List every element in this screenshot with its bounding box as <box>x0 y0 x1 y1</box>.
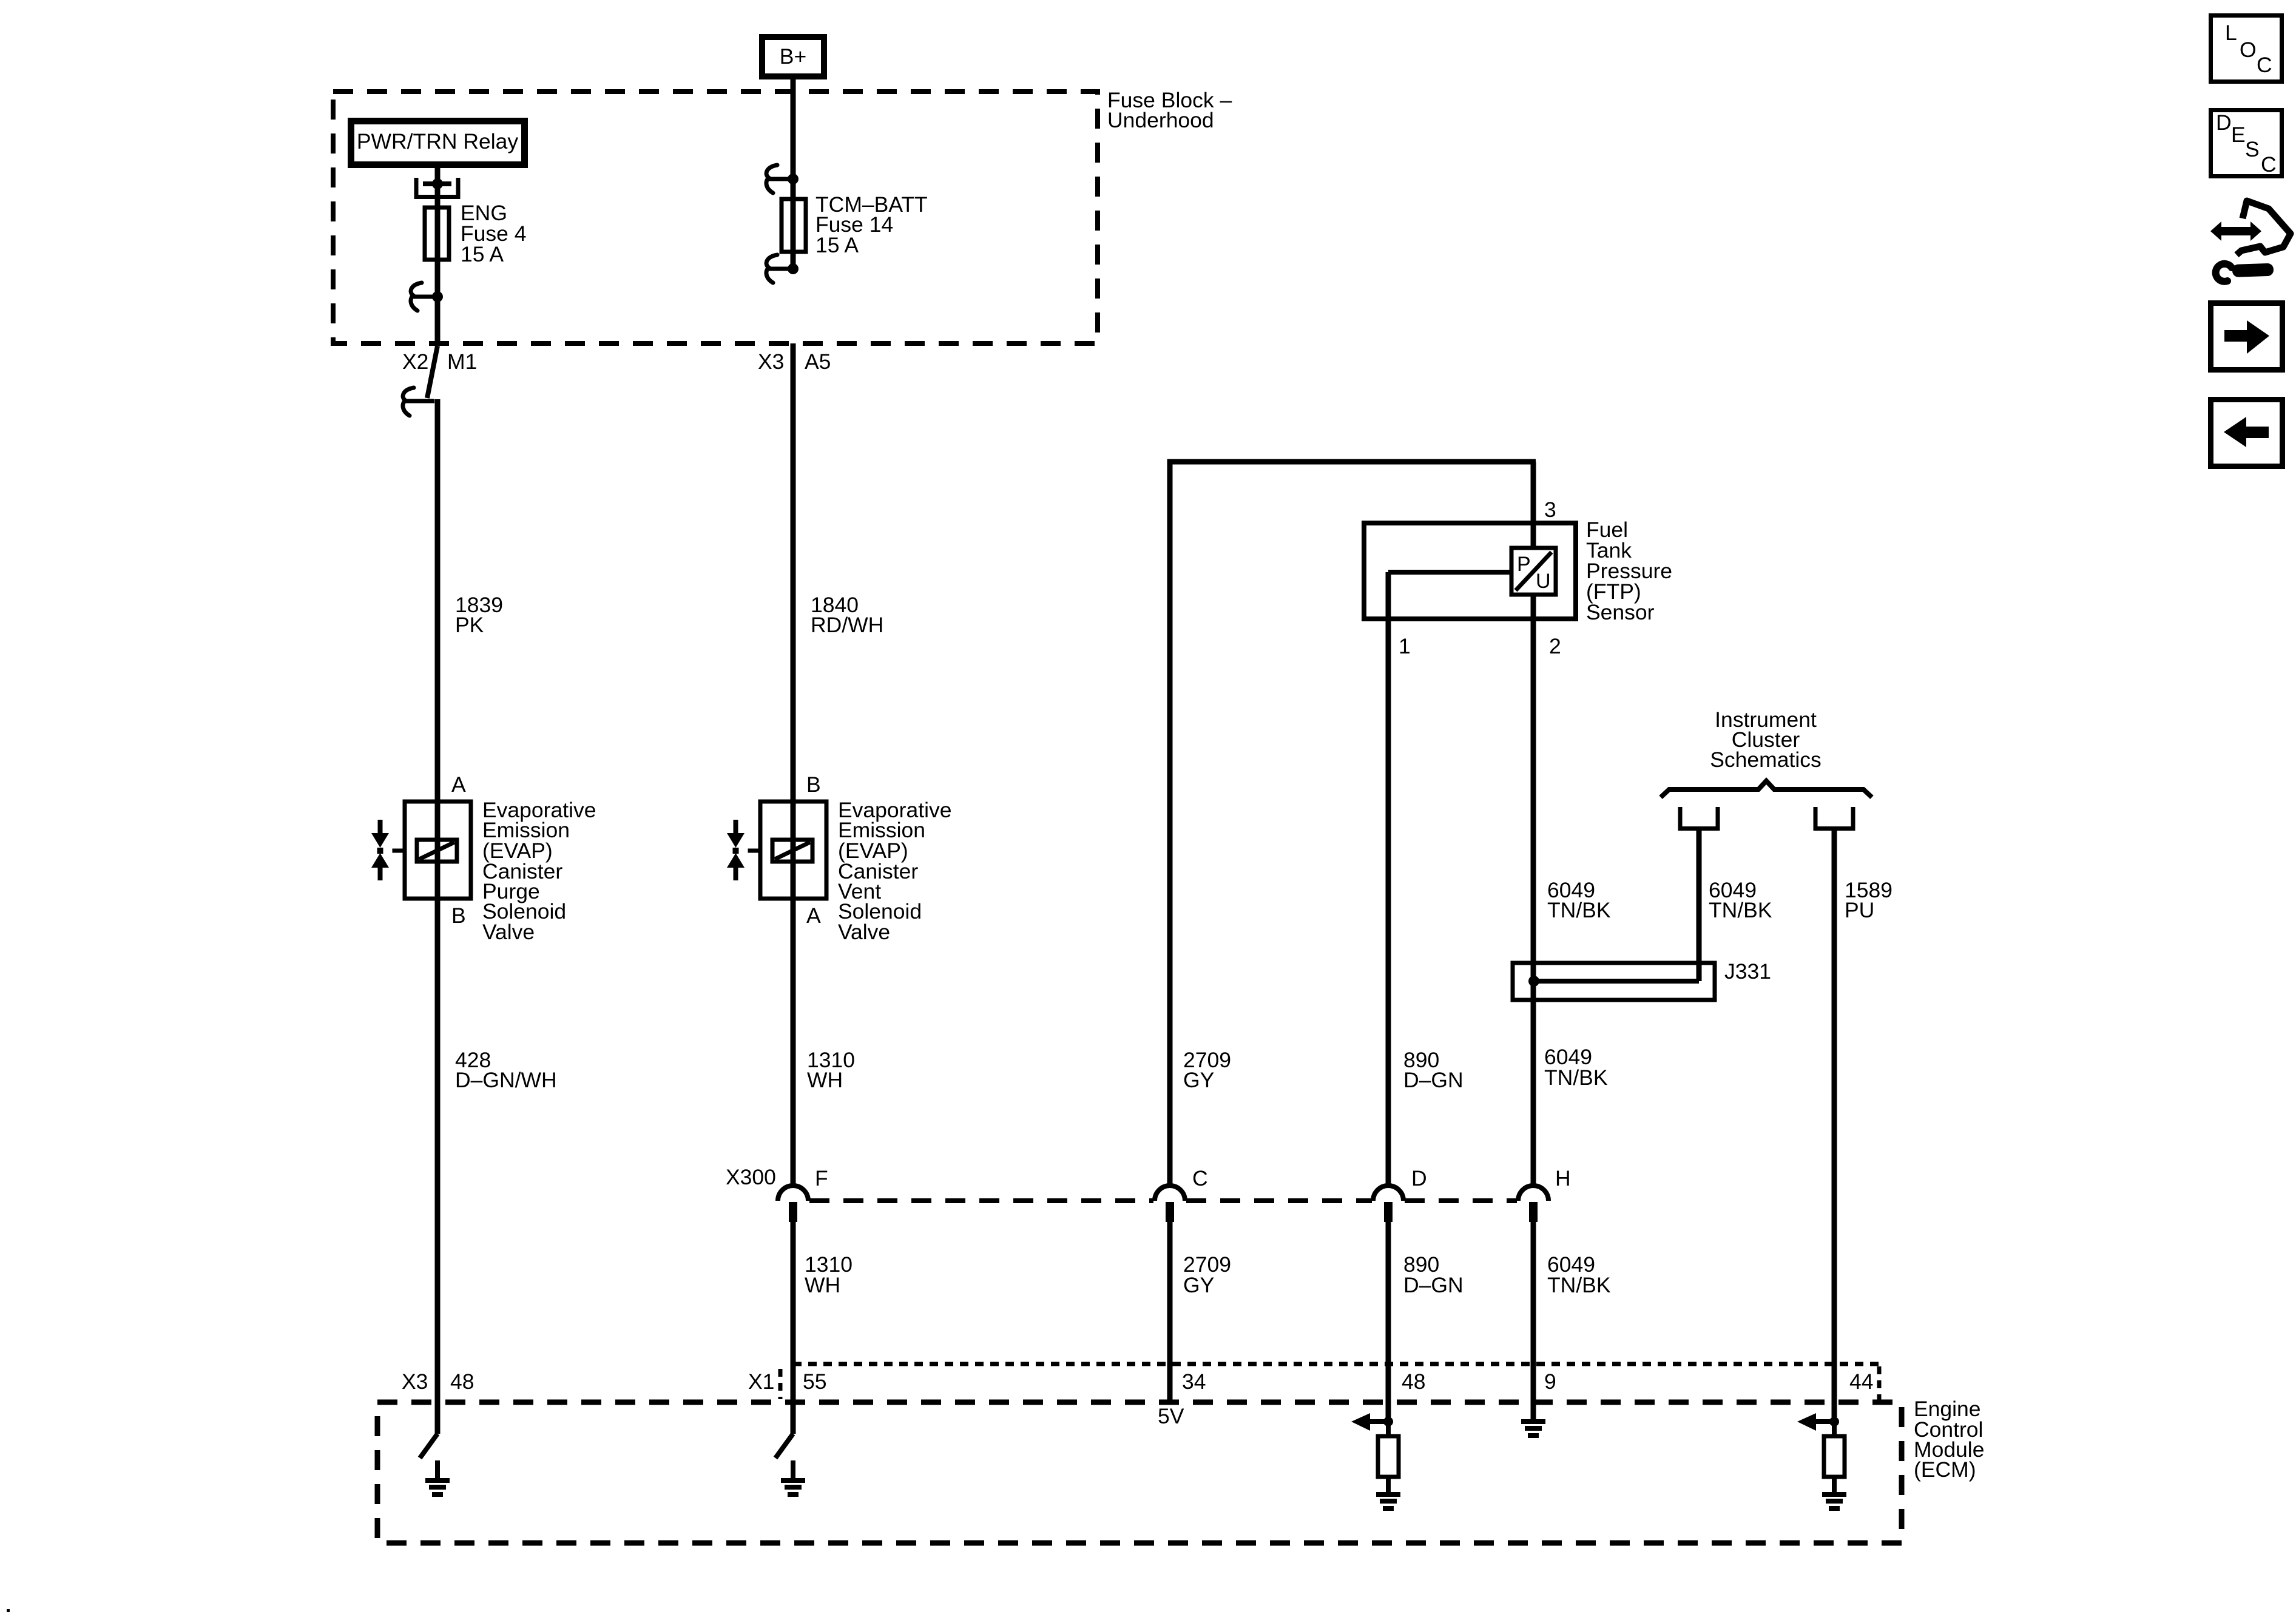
svg-text:55: 55 <box>803 1369 827 1394</box>
ECM pull-up arrow pin 48 <box>1351 1413 1393 1431</box>
splice J331 box <box>1513 963 1715 1000</box>
svg-text:5V: 5V <box>1158 1404 1184 1428</box>
ECM switch blade pin 48 X3 <box>420 1434 437 1458</box>
svg-text:O: O <box>2240 38 2257 62</box>
connector X300 pin C <box>1155 1166 1208 1222</box>
svg-text:1: 1 <box>1399 634 1411 658</box>
svg-text:B: B <box>806 772 821 797</box>
svg-text:48: 48 <box>1402 1369 1426 1394</box>
wire 428 D-GN/WH segment <box>435 899 441 1434</box>
sensor FTP box <box>1364 523 1576 619</box>
label X300 <box>726 1165 776 1189</box>
resistor ECM pin 44 <box>1824 1422 1845 1477</box>
svg-text:H: H <box>1555 1166 1571 1190</box>
svg-text:X3: X3 <box>402 1369 428 1394</box>
terminal A purge solenoid <box>451 772 466 797</box>
connector hook below fuse 14 <box>766 255 793 283</box>
wire 890 D-GN lower segment <box>1386 1222 1391 1422</box>
label 5V <box>1158 1404 1184 1428</box>
label J331 <box>1724 959 1771 984</box>
ground ECM pin 48 resistor <box>1376 1477 1400 1511</box>
terminal B vent solenoid <box>806 772 821 797</box>
svg-text:PWR/TRN Relay: PWR/TRN Relay <box>357 129 519 154</box>
vent solenoid coil <box>772 840 812 862</box>
wire - B+ down <box>791 79 796 179</box>
purge solenoid valve symbol <box>371 820 403 880</box>
svg-text:3: 3 <box>1544 498 1556 522</box>
label 1840 RD/WH <box>811 593 883 637</box>
label ENG Fuse 4 15 A <box>461 201 527 266</box>
pin label 34 <box>1182 1369 1206 1394</box>
ground ECM X3-48 <box>425 1460 450 1497</box>
page artifact dot <box>7 1609 10 1612</box>
label EVAP canister vent solenoid valve <box>838 798 951 944</box>
connector X300 dashed line <box>809 1198 1517 1203</box>
fuse ENG Fuse 4 15 A <box>425 208 449 260</box>
label 6049 TN/BK cluster <box>1709 878 1772 922</box>
svg-text:B+: B+ <box>780 44 806 69</box>
junction dot J331 <box>1528 976 1539 987</box>
connector X2 M1 labels <box>402 349 477 374</box>
wire 1839 PK segment <box>435 399 441 802</box>
svg-text:2: 2 <box>1549 634 1561 658</box>
icon back arrow box <box>2211 400 2283 467</box>
icon DESC box <box>2211 110 2282 177</box>
label 890 D-GN lower <box>1403 1252 1464 1297</box>
label 6049 TN/BK below J331 <box>1544 1045 1608 1090</box>
ECM switch blade pin 55 X1 <box>775 1434 793 1458</box>
junction dot relay output <box>432 178 443 189</box>
svg-text:Valve: Valve <box>482 920 535 944</box>
label 1839 PK <box>455 593 503 637</box>
svg-text:PU: PU <box>1845 898 1874 922</box>
wire - to X2 connector <box>435 297 441 346</box>
cluster connector cup right <box>1815 807 1853 829</box>
label 1589 PU <box>1845 878 1893 922</box>
wire - to fuse 14 <box>791 179 796 269</box>
pin label 44 <box>1849 1369 1874 1394</box>
label 6049 TN/BK main <box>1547 878 1611 922</box>
label X3 A5 <box>758 349 831 374</box>
pin label 48 <box>1402 1369 1426 1394</box>
svg-text:J331: J331 <box>1724 959 1771 984</box>
svg-text:B: B <box>451 903 466 928</box>
fuse TCM-BATT Fuse 14 15 A <box>782 199 806 252</box>
label Fuse Block - Underhood <box>1107 88 1232 132</box>
svg-text:Valve: Valve <box>838 920 890 944</box>
svg-text:M1: M1 <box>447 349 477 374</box>
icon LOC box <box>2211 16 2282 82</box>
wire 6049 TN/BK lower segment <box>1531 1222 1536 1420</box>
svg-text:TN/BK: TN/BK <box>1544 1065 1608 1090</box>
svg-text:X1: X1 <box>748 1369 774 1394</box>
svg-text:X2: X2 <box>402 349 428 374</box>
svg-text:F: F <box>815 1166 828 1190</box>
power node B+ <box>762 37 824 76</box>
P/U transducer symbol <box>1511 548 1556 595</box>
relay contact cup <box>416 178 458 197</box>
ECM pull-up arrow pin 44 <box>1797 1413 1839 1431</box>
label 890 D-GN upper <box>1403 1048 1464 1092</box>
svg-text:Schematics: Schematics <box>1710 748 1821 772</box>
svg-text:A: A <box>806 903 821 928</box>
purge solenoid coil <box>417 840 457 862</box>
icon repair instructions <box>2210 201 2291 282</box>
vent solenoid wire through box <box>791 802 796 899</box>
cluster connector cup left <box>1680 807 1718 829</box>
relay PWR/TRN Relay <box>351 121 525 165</box>
label Engine Control Module ECM <box>1914 1397 1984 1482</box>
connector X2 pin break <box>403 346 437 416</box>
wire 6049 TN/BK cluster drop <box>1697 831 1702 981</box>
wire 2709 GY lower segment <box>1167 1222 1173 1402</box>
svg-text:TN/BK: TN/BK <box>1547 898 1611 922</box>
junction dot wire A <box>432 291 443 302</box>
svg-text:C: C <box>1192 1166 1208 1190</box>
pin 2 label FTP <box>1549 634 1561 658</box>
wire 1310 WH segment <box>791 899 796 1187</box>
label Instrument Cluster Schematics <box>1710 707 1821 772</box>
svg-text:A: A <box>451 772 466 797</box>
svg-text:44: 44 <box>1849 1369 1874 1394</box>
svg-text:WH: WH <box>805 1273 840 1297</box>
purge solenoid wire through box <box>435 802 441 899</box>
label Fuel Tank Pressure FTP Sensor <box>1586 518 1672 624</box>
connector X300 pin H <box>1518 1166 1571 1222</box>
svg-text:E: E <box>2231 123 2246 147</box>
icon forward arrow box <box>2211 303 2283 370</box>
wire 2709 GY top run <box>1167 459 1536 1187</box>
connector hook above fuse 14 <box>766 165 793 193</box>
svg-text:TN/BK: TN/BK <box>1709 898 1772 922</box>
svg-text:D–GN: D–GN <box>1403 1273 1464 1297</box>
junction dot above fuse 14 <box>788 174 799 184</box>
vent solenoid valve symbol <box>727 820 759 880</box>
connector hook wire A <box>411 283 437 311</box>
svg-text:15 A: 15 A <box>461 242 504 266</box>
pin label 9 <box>1544 1369 1556 1394</box>
wire 6049 TN/BK from pin 2 <box>1531 595 1536 1187</box>
connector X300 pin F <box>778 1166 828 1222</box>
terminal B purge solenoid <box>451 903 466 928</box>
svg-text:D: D <box>2216 110 2232 135</box>
wire 890 D-GN from pin 1 <box>1388 572 1511 1187</box>
svg-text:48: 48 <box>450 1369 474 1394</box>
resistor ECM pin 48 <box>1378 1422 1399 1477</box>
label 2709 GY upper <box>1183 1048 1231 1092</box>
label 1310 WH lower <box>805 1252 853 1297</box>
svg-text:WH: WH <box>807 1068 843 1092</box>
module ECM dashed box <box>377 1402 1902 1543</box>
pin 1 label FTP <box>1399 634 1411 658</box>
terminal A vent solenoid <box>806 903 821 928</box>
ground ECM X1-55 <box>781 1460 805 1497</box>
svg-text:A5: A5 <box>805 349 831 374</box>
fuse block - underhood dashed box <box>333 92 1098 343</box>
label 1310 WH upper <box>807 1048 855 1092</box>
svg-text:D: D <box>1411 1166 1427 1190</box>
svg-text:Underhood: Underhood <box>1107 108 1214 132</box>
svg-text:TN/BK: TN/BK <box>1547 1273 1611 1297</box>
svg-text:C: C <box>2261 152 2277 177</box>
svg-text:GY: GY <box>1183 1068 1214 1092</box>
wire 1589 PU segment <box>1832 831 1837 1417</box>
label 6049 TN/BK lower <box>1547 1252 1611 1297</box>
ground ECM pin 9 <box>1521 1419 1545 1438</box>
solenoid EVAP canister purge valve box <box>405 802 471 899</box>
pin 3 label FTP <box>1544 498 1556 522</box>
wire 1310 WH lower segment <box>791 1222 796 1434</box>
svg-text:D–GN: D–GN <box>1403 1068 1464 1092</box>
label 2709 GY lower <box>1183 1252 1231 1297</box>
svg-text:9: 9 <box>1544 1369 1556 1394</box>
svg-text:X3: X3 <box>758 349 784 374</box>
ground ECM pin 44 resistor <box>1822 1477 1846 1511</box>
label EVAP canister purge solenoid valve <box>482 798 596 944</box>
connector X1 dotted line <box>780 1364 1879 1400</box>
svg-text:34: 34 <box>1182 1369 1206 1394</box>
wire 1840 RD/WH segment <box>791 343 796 802</box>
wire - relay to fuse ENG <box>435 168 441 297</box>
svg-text:C: C <box>2257 53 2272 77</box>
svg-text:D–GN/WH: D–GN/WH <box>455 1068 557 1092</box>
svg-text:PK: PK <box>455 613 484 637</box>
svg-text:15 A: 15 A <box>815 233 859 257</box>
svg-text:U: U <box>1536 570 1551 593</box>
svg-text:X300: X300 <box>726 1165 776 1189</box>
svg-text:L: L <box>2225 21 2237 45</box>
brace instrument cluster <box>1661 781 1872 797</box>
svg-text:Sensor: Sensor <box>1586 600 1655 624</box>
svg-text:P: P <box>1517 553 1531 576</box>
splice J331 link <box>1534 979 1699 984</box>
label TCM-BATT Fuse 14 15 A <box>815 192 928 257</box>
pin label X1 55 <box>748 1369 827 1394</box>
svg-text:S: S <box>2245 137 2260 161</box>
svg-text:(ECM): (ECM) <box>1914 1457 1976 1482</box>
pin label X3 48 <box>402 1369 474 1394</box>
svg-text:RD/WH: RD/WH <box>811 613 883 637</box>
connector X300 pin D <box>1373 1166 1427 1222</box>
junction dot below fuse 14 <box>788 263 799 274</box>
solenoid EVAP canister vent valve box <box>760 802 826 899</box>
svg-text:GY: GY <box>1183 1273 1214 1297</box>
label 428 D-GN/WH <box>455 1048 557 1092</box>
